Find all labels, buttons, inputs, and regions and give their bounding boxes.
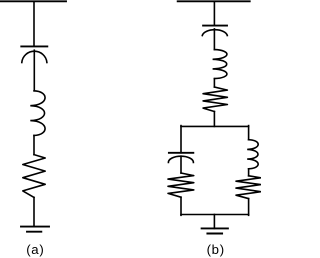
wire: left branch down to C3 xyxy=(180,126,182,153)
wire: top rail of (a) xyxy=(0,0,66,2)
wire: C3 to R3 xyxy=(180,156,182,173)
capacitor C1 curved plate xyxy=(22,51,47,62)
resistor R2 xyxy=(203,87,227,112)
wire: L2 to R2 xyxy=(213,79,215,87)
wire: L3 to R4 xyxy=(248,169,250,176)
wire: bottom rail to ground xyxy=(213,215,215,229)
wire: R2 to node A xyxy=(213,112,215,127)
wire: node A top rail of parallel section xyxy=(181,125,249,127)
ground symbol of (a) xyxy=(21,227,49,232)
wire: R3 to bottom rail xyxy=(180,197,182,215)
wire: top rail of (b) xyxy=(178,0,250,2)
wire: node B bottom rail of parallel section xyxy=(181,214,249,216)
wire: top lead of (b) xyxy=(213,1,215,25)
capacitor C2 straight plate xyxy=(203,25,227,27)
inductor L2 xyxy=(213,50,227,79)
svg-text:(a): (a) xyxy=(26,242,44,257)
wire: top lead of (a) xyxy=(33,1,35,46)
wire: R1 to ground xyxy=(33,197,35,226)
resistor R1 xyxy=(23,155,45,198)
ground symbol of (b) xyxy=(202,228,228,233)
capacitor C2 curved plate xyxy=(202,30,227,36)
capacitor C3 straight plate xyxy=(169,152,193,154)
wire: R4 to bottom rail xyxy=(248,199,250,216)
wire: C2 to L2 xyxy=(213,29,215,50)
svg-text:(b): (b) xyxy=(207,242,225,257)
inductor L3 xyxy=(247,140,258,169)
wire: right branch down to L3 xyxy=(248,126,250,140)
resistor R4 xyxy=(236,176,261,199)
inductor L1 xyxy=(30,91,45,136)
resistor R3 xyxy=(168,173,194,197)
wire: C1 to L1 xyxy=(33,50,35,91)
wire: L1 to R1 xyxy=(33,135,35,154)
capacitor C1 straight plate xyxy=(21,45,47,47)
capacitor C3 curved plate xyxy=(168,156,193,162)
